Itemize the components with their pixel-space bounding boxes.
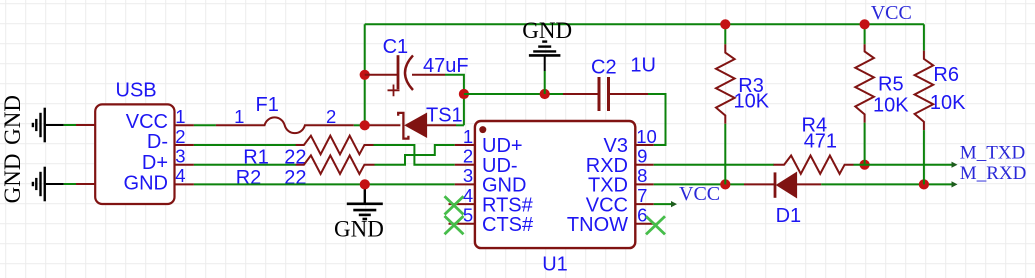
pin U1-8 stub xyxy=(635,183,654,185)
wire U1 VCC pin xyxy=(654,203,673,205)
svg-text:1: 1 xyxy=(175,106,185,127)
capacitor C2 xyxy=(599,77,609,111)
pin USB shield upper xyxy=(76,124,95,126)
pin USB 3 stub xyxy=(175,164,194,166)
svg-text:RXD: RXD xyxy=(586,155,628,177)
fuse F1 xyxy=(216,117,354,133)
USB connector J box xyxy=(95,104,174,204)
svg-text:M_TXD: M_TXD xyxy=(960,143,1025,164)
value 1U (C2) xyxy=(630,55,656,77)
svg-text:R6: R6 xyxy=(933,64,959,86)
svg-text:2: 2 xyxy=(326,106,336,127)
value 22 (R1) xyxy=(284,147,306,169)
pin name UD+ (U1) xyxy=(482,135,523,157)
svg-text:R2: R2 xyxy=(236,167,262,189)
capacitor C2 wire right xyxy=(609,93,649,95)
value 10K (R3) xyxy=(734,91,770,113)
svg-text:5: 5 xyxy=(463,205,473,226)
pin name VCC (U1) xyxy=(586,194,628,216)
svg-text:CTS#: CTS# xyxy=(482,214,534,236)
svg-text:GND: GND xyxy=(0,95,25,145)
svg-text:47uF: 47uF xyxy=(423,55,469,77)
svg-text:GND: GND xyxy=(482,175,526,197)
pin USB 2 stub xyxy=(175,144,194,146)
label R1 designator xyxy=(243,147,269,169)
wire USB1 to F1 xyxy=(194,124,216,126)
svg-text:TNOW: TNOW xyxy=(567,214,628,236)
resistor R3 xyxy=(716,24,735,184)
svg-text:F1: F1 xyxy=(256,94,279,116)
svg-text:VCC: VCC xyxy=(126,111,168,133)
wire TS1 to elbow xyxy=(456,124,464,126)
svg-text:1U: 1U xyxy=(630,55,656,77)
pin number 4 (U1) xyxy=(463,185,473,206)
pin name UD- (U1) xyxy=(482,155,518,177)
svg-text:10K: 10K xyxy=(930,92,966,114)
svg-text:1: 1 xyxy=(463,126,473,147)
pin U1-7 stub xyxy=(635,203,654,205)
pin USB 4 stub xyxy=(175,183,194,185)
svg-text:RTS#: RTS# xyxy=(482,194,534,216)
pin number 2 (F1) xyxy=(326,106,336,127)
wire-end arrow M_TXD xyxy=(952,162,958,168)
junction dot C1/GND rail xyxy=(459,89,469,99)
svg-text:1: 1 xyxy=(234,106,244,127)
pin U1-1 stub xyxy=(455,144,475,146)
pin name RXD (U1) xyxy=(586,155,628,177)
wire C1 right elbow to TS1 node xyxy=(445,75,464,126)
label C2 designator xyxy=(591,56,617,78)
svg-text:D+: D+ xyxy=(142,152,168,174)
wire-end arrow VCC pin7 xyxy=(671,201,677,207)
pin U1-2 stub xyxy=(455,164,475,166)
svg-text:GND: GND xyxy=(522,18,572,43)
ground symbol bottom middle xyxy=(334,184,384,241)
no-ERC cross pin 5 xyxy=(445,216,464,234)
svg-text:TS1: TS1 xyxy=(426,104,463,126)
svg-text:10: 10 xyxy=(636,126,657,147)
svg-text:GND: GND xyxy=(334,216,384,241)
label F1 designator xyxy=(256,94,279,116)
TVS diode TS1 xyxy=(398,113,456,139)
capacitor C2 wire left xyxy=(563,93,599,95)
label TS1 designator xyxy=(426,104,463,126)
svg-text:VCC: VCC xyxy=(679,183,720,205)
label D1 designator xyxy=(776,205,802,227)
resistor R4 xyxy=(774,156,854,174)
pin number 3 (U1) xyxy=(463,165,473,186)
wire R4 to M_TXD xyxy=(854,164,954,166)
svg-text:9: 9 xyxy=(637,146,647,167)
pin U1-4 stub xyxy=(449,203,475,205)
label R3 designator xyxy=(738,75,764,97)
svg-text:2: 2 xyxy=(175,126,185,147)
junction dot R3 bottom xyxy=(720,179,730,189)
resistor R5 xyxy=(855,24,874,164)
svg-text:GND: GND xyxy=(0,154,25,204)
wire-end arrow M_RXD xyxy=(952,181,958,187)
svg-text:D1: D1 xyxy=(776,205,802,227)
svg-text:C1: C1 xyxy=(383,36,409,58)
wire USB GND to U1 GND xyxy=(194,183,455,185)
pin number 8 (U1) xyxy=(637,165,647,186)
svg-text:R5: R5 xyxy=(878,73,904,95)
pin name D+ (USB) xyxy=(142,152,168,174)
pin name GND (USB) xyxy=(124,172,168,194)
junction dot VCC/F1/TS1 xyxy=(360,120,370,130)
label C1 designator xyxy=(383,36,409,58)
resistor R2 xyxy=(296,155,375,174)
pin name GND (U1) xyxy=(482,175,526,197)
capacitor C1 wire right xyxy=(412,74,445,76)
pin number 1 (F1) xyxy=(234,106,244,127)
value 47uF (C1) xyxy=(423,55,469,77)
junction dot R6 bottom xyxy=(919,179,929,189)
wire F1 to node VCCIN xyxy=(354,124,401,126)
pin name D- (USB) xyxy=(147,131,168,153)
ground symbol left upper xyxy=(0,95,64,145)
no-ERC cross pin 6 xyxy=(646,216,665,234)
power label VCC (top right) xyxy=(871,2,912,24)
wire top VCC bus xyxy=(365,23,924,25)
resistor R6 xyxy=(915,51,934,185)
svg-text:GND: GND xyxy=(124,172,168,194)
pin number 1 (USB) xyxy=(175,106,185,127)
pin name VCC (USB) xyxy=(126,111,168,133)
pin U1-10 stub xyxy=(635,144,654,146)
ground symbol left lower xyxy=(0,154,64,204)
wire U1 TXD to D1 xyxy=(654,183,744,185)
ground symbol top middle xyxy=(522,18,572,94)
IC U1 box xyxy=(475,121,635,248)
pin U1-5 stub xyxy=(449,223,475,225)
label R6 designator xyxy=(933,64,959,86)
wire USB D+ to R2 xyxy=(194,164,296,166)
junction dot R3 top xyxy=(720,19,730,29)
svg-text:USB: USB xyxy=(116,79,157,101)
pin U1-6 stub xyxy=(635,223,656,225)
svg-text:M_RXD: M_RXD xyxy=(960,163,1027,184)
pin name CTS# (U1) xyxy=(482,214,534,236)
pin number 2 (U1) xyxy=(463,146,473,167)
label R4 designator xyxy=(802,115,828,137)
svg-text:VCC: VCC xyxy=(586,194,628,216)
label U1 designator xyxy=(542,253,568,275)
svg-text:VCC: VCC xyxy=(871,2,912,24)
value 22 (R2) xyxy=(284,167,306,189)
wire GND to USB shield lower xyxy=(64,183,76,185)
svg-text:3: 3 xyxy=(463,165,473,186)
svg-text:V3: V3 xyxy=(604,135,628,157)
pin name V3 (U1) xyxy=(604,135,628,157)
svg-text:471: 471 xyxy=(804,130,837,152)
pin USB shield lower xyxy=(76,183,95,185)
wire GND to USB shield upper xyxy=(64,124,76,126)
pin number 7 (U1) xyxy=(637,185,647,206)
net label M_TXD xyxy=(960,143,1025,164)
diode D1 xyxy=(744,172,821,197)
label R2 designator xyxy=(236,167,262,189)
svg-text:8: 8 xyxy=(637,165,647,186)
capacitor C1 xyxy=(388,55,414,96)
pin number 5 (U1) xyxy=(463,205,473,226)
svg-text:2: 2 xyxy=(463,146,473,167)
svg-text:4: 4 xyxy=(463,185,473,206)
value 10K (R5) xyxy=(873,94,909,116)
pin name TNOW (U1) xyxy=(567,214,628,236)
U1 part marker dot xyxy=(479,126,486,133)
wire D1 to M_RXD xyxy=(821,183,953,185)
net label M_RXD xyxy=(960,163,1027,184)
pin number 2 (USB) xyxy=(175,126,185,147)
wire VCC vertical drop left xyxy=(364,24,366,125)
label R5 designator xyxy=(878,73,904,95)
junction dot R4/R5 xyxy=(860,160,870,170)
svg-text:7: 7 xyxy=(637,185,647,206)
svg-text:3: 3 xyxy=(175,146,185,167)
pin number 9 (U1) xyxy=(637,146,647,167)
svg-text:4: 4 xyxy=(175,165,185,186)
junction dot VCC/C1 xyxy=(360,70,370,80)
pin name TXD (U1) xyxy=(588,175,628,197)
label USB designator xyxy=(116,79,157,101)
svg-text:U1: U1 xyxy=(542,253,568,275)
wire R1 to U1 UD- (with jog down) xyxy=(374,145,455,165)
no-ERC cross pin 4 xyxy=(445,196,464,214)
pin number 4 (USB) xyxy=(175,165,185,186)
wire USB D- to R1 xyxy=(194,144,296,146)
pin U1-3 stub xyxy=(455,183,475,185)
wire C2 to U1 V3 pin xyxy=(648,94,666,145)
svg-text:22: 22 xyxy=(284,167,306,189)
wire R2 to U1 UD+ (staircase over R1 wire) xyxy=(375,145,455,165)
svg-text:10K: 10K xyxy=(873,94,909,116)
capacitor C1 wire left xyxy=(365,74,398,76)
pin number 6 (U1) xyxy=(637,205,647,226)
svg-text:10K: 10K xyxy=(734,91,770,113)
pin U1-9 stub xyxy=(635,164,654,166)
pin USB 1 stub xyxy=(175,124,194,126)
pin number 1 (U1) xyxy=(463,126,473,147)
pin number 3 (USB) xyxy=(175,146,185,167)
wire U1 RXD to R4 xyxy=(654,164,774,166)
svg-text:UD-: UD- xyxy=(482,155,518,177)
svg-text:UD+: UD+ xyxy=(482,135,523,157)
power label VCC (pin7) xyxy=(679,183,720,205)
pin number 10 (U1) xyxy=(636,126,657,147)
junction dot GND rail / ground xyxy=(540,89,550,99)
junction dot R5 top xyxy=(860,19,870,29)
svg-text:C2: C2 xyxy=(591,56,617,78)
svg-text:D-: D- xyxy=(147,131,168,153)
wire R6 top drop xyxy=(923,24,925,50)
svg-text:6: 6 xyxy=(637,205,647,226)
value 10K (R6) xyxy=(930,92,966,114)
resistor R1 xyxy=(296,136,374,155)
value 471 (R4) xyxy=(804,130,837,152)
wire GND rail xyxy=(464,93,563,95)
junction dot USB-GND rail xyxy=(360,179,370,189)
svg-text:TXD: TXD xyxy=(588,175,628,197)
pin name RTS# (U1) xyxy=(482,194,534,216)
